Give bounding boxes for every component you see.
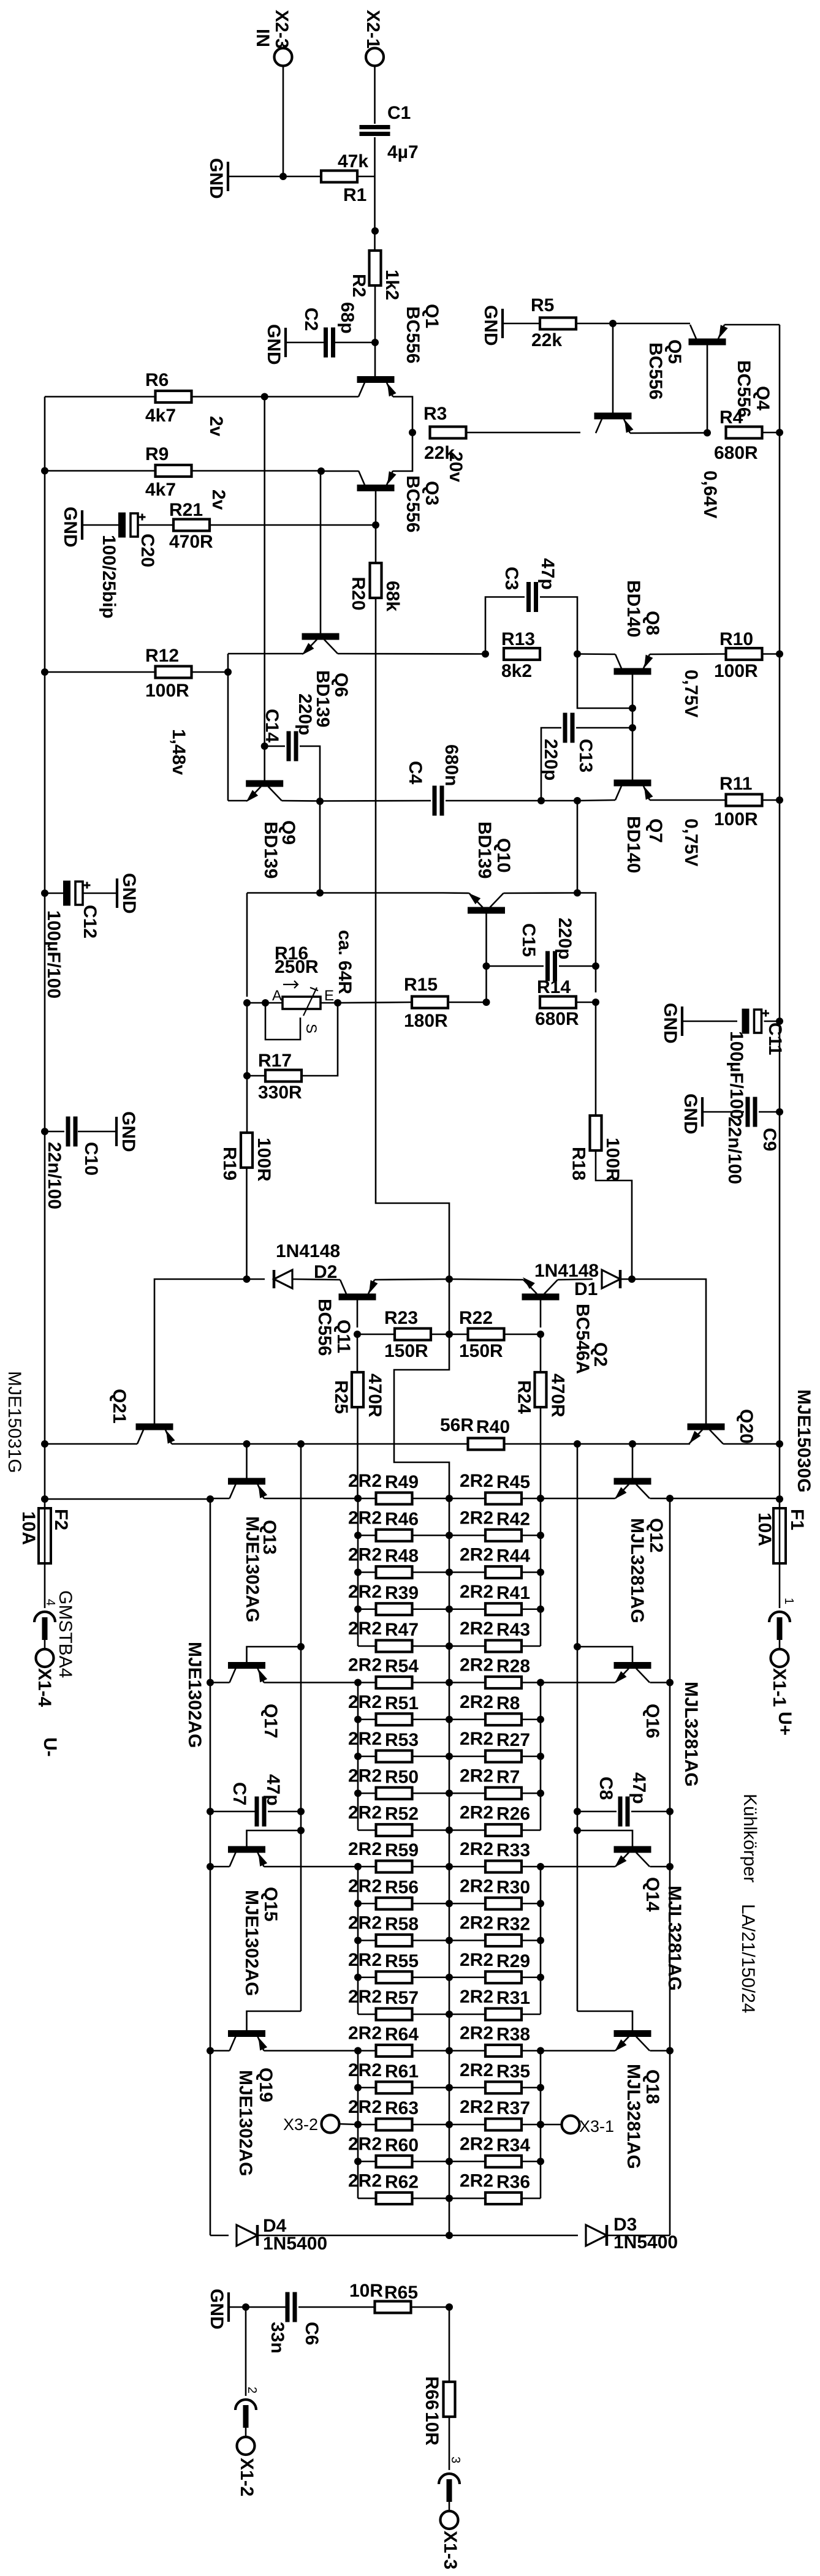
wire Q19 emitter to bank <box>264 2050 359 2052</box>
svg-text:X2-1: X2-1 <box>363 10 383 48</box>
svg-text:R21: R21 <box>169 500 203 520</box>
resistor R50 2R2 <box>376 1788 412 1799</box>
transistor Q11 BC556 <box>339 1294 376 1301</box>
bias wire Q21 to R40 <box>172 1443 467 1445</box>
svg-text:2R2: 2R2 <box>348 1545 382 1565</box>
svg-text:2R2: 2R2 <box>348 1876 382 1896</box>
junction Q9 collector node <box>316 798 324 805</box>
wire R20 down long to Q2 emitter node <box>376 599 449 1279</box>
junction Q10 column top <box>574 797 581 804</box>
svg-text:Q20: Q20 <box>736 1409 756 1444</box>
wire Q17 collector <box>210 1682 230 1683</box>
junction R13 left <box>482 651 489 658</box>
wire Q12 emitter to bank <box>541 1498 615 1500</box>
left rail <box>44 397 46 1509</box>
connector X3-2 <box>322 2115 340 2133</box>
svg-text:R11: R11 <box>719 774 752 794</box>
svg-text:R59: R59 <box>385 1840 419 1860</box>
svg-text:2R2: 2R2 <box>460 1545 493 1565</box>
junction R12/Q6-Q9 emitter column <box>224 668 232 676</box>
resistor R21 <box>173 519 210 531</box>
junction R14 right <box>592 999 599 1006</box>
svg-text:D1: D1 <box>574 1279 598 1299</box>
svg-text:R65: R65 <box>384 2283 418 2303</box>
svg-text:47p: 47p <box>537 558 558 590</box>
svg-text:2R2: 2R2 <box>348 1729 382 1749</box>
wire C2 to base net <box>333 342 376 344</box>
junction R9 left rail <box>41 467 48 475</box>
transistor Q6 BD139 <box>302 633 340 640</box>
junction output D3/D4 row <box>446 2232 453 2239</box>
svg-text:R66: R66 <box>422 2376 442 2410</box>
svg-text:R39: R39 <box>385 1583 419 1603</box>
Q9 collector node down to feedback row <box>319 801 321 893</box>
svg-text:LA/21/150/24: LA/21/150/24 <box>738 1904 758 2014</box>
svg-text:IN: IN <box>252 29 273 47</box>
svg-text:1k2: 1k2 <box>382 270 402 300</box>
positive rail top segment <box>779 325 781 1508</box>
wire D3 to right collector column <box>606 2235 670 2237</box>
svg-text:F2: F2 <box>51 1509 71 1530</box>
svg-text:2R2: 2R2 <box>348 1582 382 1602</box>
svg-text:C2: C2 <box>301 308 321 331</box>
svg-text:MJE15031G: MJE15031G <box>4 1371 25 1473</box>
svg-text:MJE1302AG: MJE1302AG <box>184 1642 205 1748</box>
svg-text:C1: C1 <box>387 103 411 123</box>
svg-text:1N4148: 1N4148 <box>276 1241 340 1261</box>
svg-text:R44: R44 <box>496 1546 530 1566</box>
wire R1 to C1 net <box>359 176 375 178</box>
pot E junction <box>334 999 341 1007</box>
corner down to pot <box>246 893 248 997</box>
wire Q9 base column <box>264 397 265 781</box>
wires R14 <box>449 1002 487 1003</box>
svg-text:47p: 47p <box>629 1772 649 1804</box>
output node column through bank <box>449 1498 450 2235</box>
svg-text:100R: 100R <box>714 661 758 681</box>
svg-text:Q15: Q15 <box>260 1887 281 1922</box>
connector X1-1 <box>769 1612 790 1622</box>
junction output column <box>446 1642 453 1650</box>
junction Q1/Q9 base column <box>261 393 268 401</box>
svg-text:2R2: 2R2 <box>460 2171 493 2191</box>
svg-text:R19: R19 <box>219 1147 240 1180</box>
transistor Q10 BD139 <box>468 907 505 914</box>
wire Q5 emitter to rail <box>724 324 780 326</box>
svg-text:R25: R25 <box>331 1380 351 1414</box>
resistor R61 2R2 <box>376 2082 412 2093</box>
capacitor C10 <box>66 1117 70 1147</box>
wire Q14 collector <box>650 1866 670 1868</box>
svg-text:2R2: 2R2 <box>460 2134 493 2154</box>
svg-text:GND: GND <box>207 2289 227 2330</box>
wire Q1 emitter to R3 node <box>393 397 412 433</box>
wire Q16 emitter to bank <box>541 1682 615 1683</box>
svg-text:Q19: Q19 <box>256 2068 276 2102</box>
svg-text:R57: R57 <box>385 1988 419 2008</box>
resistor R47 2R2 <box>376 1641 412 1652</box>
wire Q2 collector to D1 <box>558 1279 593 1280</box>
svg-text:R2: R2 <box>349 274 369 297</box>
resistor R63 2R2 <box>376 2119 412 2131</box>
svg-text:BC546A: BC546A <box>572 1304 593 1374</box>
resistor R32 2R2 <box>485 1935 522 1946</box>
output node wire down with jog <box>449 1279 450 1334</box>
wire Q10 collector to jog <box>504 892 578 894</box>
transistor Q17 MJE1302AG <box>228 1662 265 1669</box>
junction bias wire left rail <box>41 1440 48 1448</box>
Q8/Q7 base line <box>632 674 634 780</box>
bank group right column x882 rows 3047 <box>540 1867 542 2014</box>
resistor R14 <box>540 997 576 1008</box>
svg-text:100R: 100R <box>254 1138 274 1182</box>
bank group left column x584 rows 3047 <box>357 1867 359 2014</box>
bank group right column x882 rows 3347.5 <box>540 2051 542 2199</box>
svg-text:10A: 10A <box>18 1511 39 1545</box>
junction output column <box>446 2158 453 2165</box>
connector X2-3 <box>275 48 292 66</box>
svg-text:C3: C3 <box>501 567 522 590</box>
svg-text:R38: R38 <box>496 2025 530 2045</box>
svg-text:680n: 680n <box>441 744 461 786</box>
resistor R46 2R2 <box>376 1530 412 1541</box>
resistor R31 2R2 <box>485 2009 522 2020</box>
svg-text:2R2: 2R2 <box>348 1655 382 1675</box>
svg-text:20v: 20v <box>446 451 466 482</box>
svg-text:680R: 680R <box>714 443 758 463</box>
junction output column <box>446 2121 453 2128</box>
wire C6 to R65 <box>298 2306 374 2308</box>
svg-text:R62: R62 <box>385 2172 419 2193</box>
svg-text:MJL3281AG: MJL3281AG <box>664 1886 685 1991</box>
svg-text:C8: C8 <box>596 1777 616 1800</box>
svg-text:C13: C13 <box>575 739 596 772</box>
svg-text:150R: 150R <box>384 1341 428 1361</box>
svg-text:R37: R37 <box>496 2098 530 2118</box>
bank group left column x584 rows 2746.5 <box>357 1683 359 1830</box>
svg-text:330R: 330R <box>258 1082 302 1103</box>
resistor R60 2R2 <box>376 2156 412 2167</box>
right collector column x1093 <box>669 1498 671 2235</box>
svg-text:100R: 100R <box>714 809 758 829</box>
svg-text:2R2: 2R2 <box>460 1987 493 2007</box>
svg-text:R64: R64 <box>385 2025 419 2045</box>
svg-text:A: A <box>272 988 282 1004</box>
resistor R64 2R2 <box>376 2045 412 2057</box>
connector X1-3 <box>439 2474 460 2484</box>
junction bias wire right rail <box>776 1440 783 1448</box>
connector X2-1 <box>366 48 384 66</box>
svg-text:68p: 68p <box>337 302 357 334</box>
resistor R35 2R2 <box>485 2082 522 2093</box>
resistor R37 2R2 <box>485 2119 522 2131</box>
svg-text:R8: R8 <box>496 1693 520 1713</box>
wire R10 to rail <box>763 653 780 655</box>
svg-text:R63: R63 <box>385 2098 419 2118</box>
wire Q2 emitter to output node <box>449 1279 523 1280</box>
svg-text:U+: U+ <box>775 1712 795 1736</box>
rail junction R11 <box>776 796 783 804</box>
svg-text:R6: R6 <box>145 370 169 390</box>
svg-text:2v: 2v <box>206 416 226 437</box>
svg-text:R46: R46 <box>385 1509 419 1529</box>
svg-text:R7: R7 <box>496 1767 520 1787</box>
svg-text:R35: R35 <box>496 2061 530 2082</box>
junction R23/R22 output node <box>446 1331 453 1338</box>
junction output column <box>446 2011 453 2018</box>
svg-text:3: 3 <box>449 2457 462 2463</box>
resistor R15 <box>412 997 448 1008</box>
wire Q3 base down to R21 node <box>375 491 377 562</box>
junction node A (Q4 collector) <box>609 320 617 327</box>
wire Q9 collector <box>282 800 320 802</box>
junction Q2 base node <box>537 1331 544 1338</box>
svg-text:22n/100: 22n/100 <box>724 1117 745 1184</box>
transistor Q18 MJL3281AG <box>614 2030 651 2037</box>
svg-text:0,75V: 0,75V <box>681 670 701 717</box>
resistor R1 <box>321 171 357 183</box>
capacitor C4 <box>433 786 437 816</box>
svg-text:220p: 220p <box>555 918 575 959</box>
svg-text:R10: R10 <box>719 629 753 649</box>
svg-text:2R2: 2R2 <box>460 1471 493 1491</box>
transistor Q1 BC556 <box>357 376 395 383</box>
transistor Q9 BD139 <box>246 780 283 787</box>
wire Q3 collector to R9 node <box>321 470 359 472</box>
svg-text:GND: GND <box>206 158 226 199</box>
svg-text:C10: C10 <box>81 1142 101 1176</box>
junction on input net <box>371 227 379 235</box>
svg-text:100R: 100R <box>602 1138 623 1182</box>
svg-text:C7: C7 <box>229 1782 249 1805</box>
svg-text:E: E <box>324 988 334 1004</box>
wires R22 <box>449 1334 467 1335</box>
svg-text:C12: C12 <box>80 905 100 939</box>
svg-text:R29: R29 <box>496 1951 530 1971</box>
resistor R5 <box>540 318 576 330</box>
svg-text:2: 2 <box>245 2387 259 2393</box>
resistor R22 <box>468 1329 504 1340</box>
bank group right column x882 rows 2446 <box>540 1498 542 1646</box>
wire R15 left to pot E <box>338 1002 411 1003</box>
resistor R33 2R2 <box>485 1861 522 1873</box>
svg-text:Q17: Q17 <box>260 1704 281 1739</box>
capacitor C1 <box>360 125 390 129</box>
wire Q14 emitter to bank <box>541 1866 615 1868</box>
wire Q19 collector <box>210 2050 230 2052</box>
wire Q21 collector to left rail <box>45 1443 137 1445</box>
svg-text:BD140: BD140 <box>623 816 643 873</box>
diode D2 1N4148 <box>247 1279 265 1280</box>
svg-text:2R2: 2R2 <box>348 2023 382 2044</box>
wire C20 to R21 <box>138 524 173 526</box>
junction output column <box>446 1716 453 1723</box>
svg-text:F1: F1 <box>787 1509 807 1530</box>
wire GND junction to R1 <box>283 176 320 178</box>
junction R3 node <box>409 429 416 436</box>
capacitor C2 <box>324 328 328 358</box>
wire Q18 collector <box>650 2050 670 2052</box>
resistor R36 2R2 <box>485 2193 522 2204</box>
svg-text:R33: R33 <box>496 1840 530 1860</box>
junction output column <box>446 1789 453 1797</box>
junction node B <box>704 429 711 437</box>
wire down to R18 <box>595 1002 597 1114</box>
resistor R11 <box>726 795 762 806</box>
wire Q13 emitter to bank <box>264 1498 359 1500</box>
svg-text:R58: R58 <box>385 1914 419 1935</box>
svg-text:2R2: 2R2 <box>460 1582 493 1602</box>
junction output column <box>446 1495 453 1502</box>
transistor Q8 BD140 <box>614 668 651 675</box>
transistor Q4 BC556 <box>594 413 632 420</box>
resistor R8 2R2 <box>485 1713 522 1725</box>
svg-text:MJL3281AG: MJL3281AG <box>681 1682 701 1787</box>
svg-text:2R2: 2R2 <box>460 2060 493 2080</box>
wire D2 to Q11 collector <box>292 1279 340 1280</box>
svg-text:2R2: 2R2 <box>348 2171 382 2191</box>
wire Q6 base up to R9 node <box>320 471 322 633</box>
wire R12 row <box>45 671 154 673</box>
svg-text:R53: R53 <box>385 1730 419 1750</box>
svg-text:10A: 10A <box>754 1513 775 1546</box>
transistor Q7 BD140 <box>614 780 651 787</box>
wire D1 to R18 node <box>620 1279 632 1280</box>
junction input node <box>279 173 287 180</box>
resistor R9 <box>156 465 192 477</box>
wire C9 to rail <box>759 1111 780 1113</box>
wires R24 to bank <box>540 1334 542 1371</box>
junction right driver base column <box>574 1440 581 1448</box>
junction C13 top <box>629 724 636 731</box>
svg-text:C11: C11 <box>765 1022 785 1055</box>
capacitor C7 with wires <box>210 1811 255 1813</box>
svg-text:R54: R54 <box>385 1656 419 1677</box>
svg-text:GND: GND <box>119 873 139 914</box>
wire Q9 emitter <box>228 800 248 802</box>
wire R18 to D1 via jog <box>596 1152 632 1279</box>
svg-text:Q14: Q14 <box>642 1877 662 1912</box>
svg-text:BD140: BD140 <box>623 580 643 637</box>
svg-text:R13: R13 <box>501 629 535 649</box>
resistor R38 2R2 <box>485 2045 522 2057</box>
svg-text:Q18: Q18 <box>642 2069 662 2104</box>
svg-text:GND: GND <box>680 1093 700 1135</box>
svg-text:180R: 180R <box>404 1011 448 1031</box>
junction C12 rail <box>41 890 48 897</box>
resistor R19 <box>241 1133 252 1168</box>
right driver base column x942 <box>577 1444 579 2011</box>
wire Q1 collector to R6 node <box>265 396 359 398</box>
junction output column <box>446 1900 453 1907</box>
svg-text:R56: R56 <box>385 1877 419 1897</box>
svg-text:X2-3: X2-3 <box>271 10 292 48</box>
resistor R51 2R2 <box>376 1713 412 1725</box>
svg-text:Kühlkörper: Kühlkörper <box>740 1794 760 1883</box>
svg-text:22n/100: 22n/100 <box>44 1142 64 1209</box>
svg-text:2R2: 2R2 <box>348 2060 382 2080</box>
svg-text:4µ7: 4µ7 <box>387 142 419 162</box>
svg-text:2R2: 2R2 <box>460 1876 493 1896</box>
resistor R23 <box>395 1329 431 1340</box>
resistor R18 <box>590 1116 602 1150</box>
resistor R24 <box>535 1372 547 1407</box>
wire X1-2 drop <box>245 2307 247 2396</box>
svg-text:220p: 220p <box>295 693 315 735</box>
svg-text:X1-1: X1-1 <box>769 1668 789 1707</box>
svg-text:GND: GND <box>60 507 80 548</box>
svg-text:Q3: Q3 <box>422 481 442 505</box>
svg-text:R36: R36 <box>496 2172 530 2193</box>
resistor R7 2R2 <box>485 1788 522 1799</box>
resistor R62 2R2 <box>376 2193 412 2204</box>
wire D2 node to Q21 base corner <box>154 1279 247 1424</box>
resistor R59 2R2 <box>376 1861 412 1873</box>
diode D4 1N5400 <box>210 2235 229 2237</box>
pot wiper bracket <box>265 1003 300 1040</box>
svg-text:X1-3: X1-3 <box>440 2531 460 2569</box>
svg-text:R20: R20 <box>348 577 368 611</box>
svg-text:Q12: Q12 <box>646 1518 666 1553</box>
svg-text:BC556: BC556 <box>403 475 423 532</box>
svg-text:X3-1: X3-1 <box>579 2117 614 2136</box>
junction output top node <box>446 1275 453 1283</box>
svg-text:4: 4 <box>44 1599 57 1606</box>
capacitor C12 polarized <box>63 881 70 906</box>
transistor Q20 MJE15030G <box>688 1424 725 1430</box>
diode D3 1N5400 <box>449 2235 578 2237</box>
svg-text:U-: U- <box>40 1737 60 1757</box>
svg-text:100µF/100: 100µF/100 <box>44 910 64 999</box>
junction output column <box>446 2195 453 2202</box>
svg-text:250R: 250R <box>275 957 319 977</box>
svg-text:100µF/100: 100µF/100 <box>726 1031 746 1119</box>
svg-text:Q11: Q11 <box>333 1320 354 1353</box>
ground at R1 <box>228 176 283 178</box>
transistor Q14 MJL3281AG <box>614 1846 651 1853</box>
junction C14 left <box>261 742 268 750</box>
wires R23 <box>357 1334 394 1335</box>
ground at R5 <box>503 323 539 325</box>
wire X2-1 down to C1 <box>374 66 376 124</box>
junction R12 left <box>41 668 48 676</box>
wire Q5 collector down <box>707 344 708 432</box>
svg-text:150R: 150R <box>459 1341 503 1361</box>
svg-text:R52: R52 <box>385 1804 419 1824</box>
resistor R55 2R2 <box>376 1971 412 1983</box>
junction output column <box>446 2047 453 2055</box>
svg-text:C6: C6 <box>302 2322 322 2345</box>
wire Q11 emitter to output node <box>374 1279 449 1280</box>
junction C10 rail <box>41 1128 48 1135</box>
fuse F2 <box>41 1495 48 1503</box>
svg-text:2R2: 2R2 <box>348 1692 382 1712</box>
resistor R26 2R2 <box>485 1824 522 1836</box>
wire R6 row <box>192 396 265 398</box>
svg-text:2R2: 2R2 <box>460 1913 493 1933</box>
wire input X2-3 to GND junction <box>283 66 284 176</box>
resistor R27 2R2 <box>485 1751 522 1762</box>
wire Q4 emitter to node B <box>630 432 707 434</box>
bank group left column x584 rows 3347.5 <box>357 2051 359 2199</box>
wire R19 to D2 node <box>246 1169 248 1279</box>
resistor R13 <box>504 648 540 660</box>
resistor R39 2R2 <box>376 1603 412 1615</box>
junction Q8 collector line <box>629 704 636 712</box>
junction D2 node <box>243 1275 251 1283</box>
resistor R56 2R2 <box>376 1898 412 1909</box>
wire column Q7/Q10 <box>577 801 579 893</box>
